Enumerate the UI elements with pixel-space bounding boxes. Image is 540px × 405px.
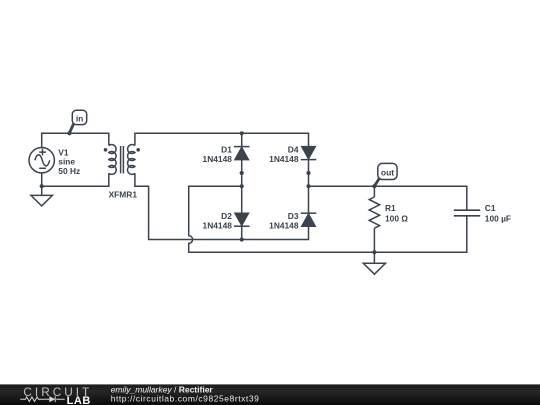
svg-text:100 µF: 100 µF: [485, 214, 511, 224]
svg-text:http://circuitlab.com/c9825e8r: http://circuitlab.com/c9825e8rtxt39: [111, 394, 260, 404]
svg-text:XFMR1: XFMR1: [109, 190, 138, 200]
svg-text:50 Hz: 50 Hz: [58, 166, 80, 176]
svg-text:1N4148: 1N4148: [203, 154, 233, 164]
svg-text:R1: R1: [385, 203, 396, 213]
svg-text:LAB: LAB: [67, 395, 91, 405]
svg-text:D1: D1: [221, 144, 232, 154]
svg-text:100 Ω: 100 Ω: [385, 213, 408, 223]
svg-text:D3: D3: [288, 211, 299, 221]
svg-text:1N4148: 1N4148: [269, 154, 299, 164]
svg-text:1N4148: 1N4148: [269, 221, 299, 231]
svg-text:in: in: [76, 113, 84, 123]
svg-text:C1: C1: [485, 203, 496, 213]
svg-text:D4: D4: [288, 144, 299, 154]
svg-text:1N4148: 1N4148: [203, 221, 233, 231]
svg-text:out: out: [381, 167, 394, 177]
svg-text:D2: D2: [221, 211, 232, 221]
